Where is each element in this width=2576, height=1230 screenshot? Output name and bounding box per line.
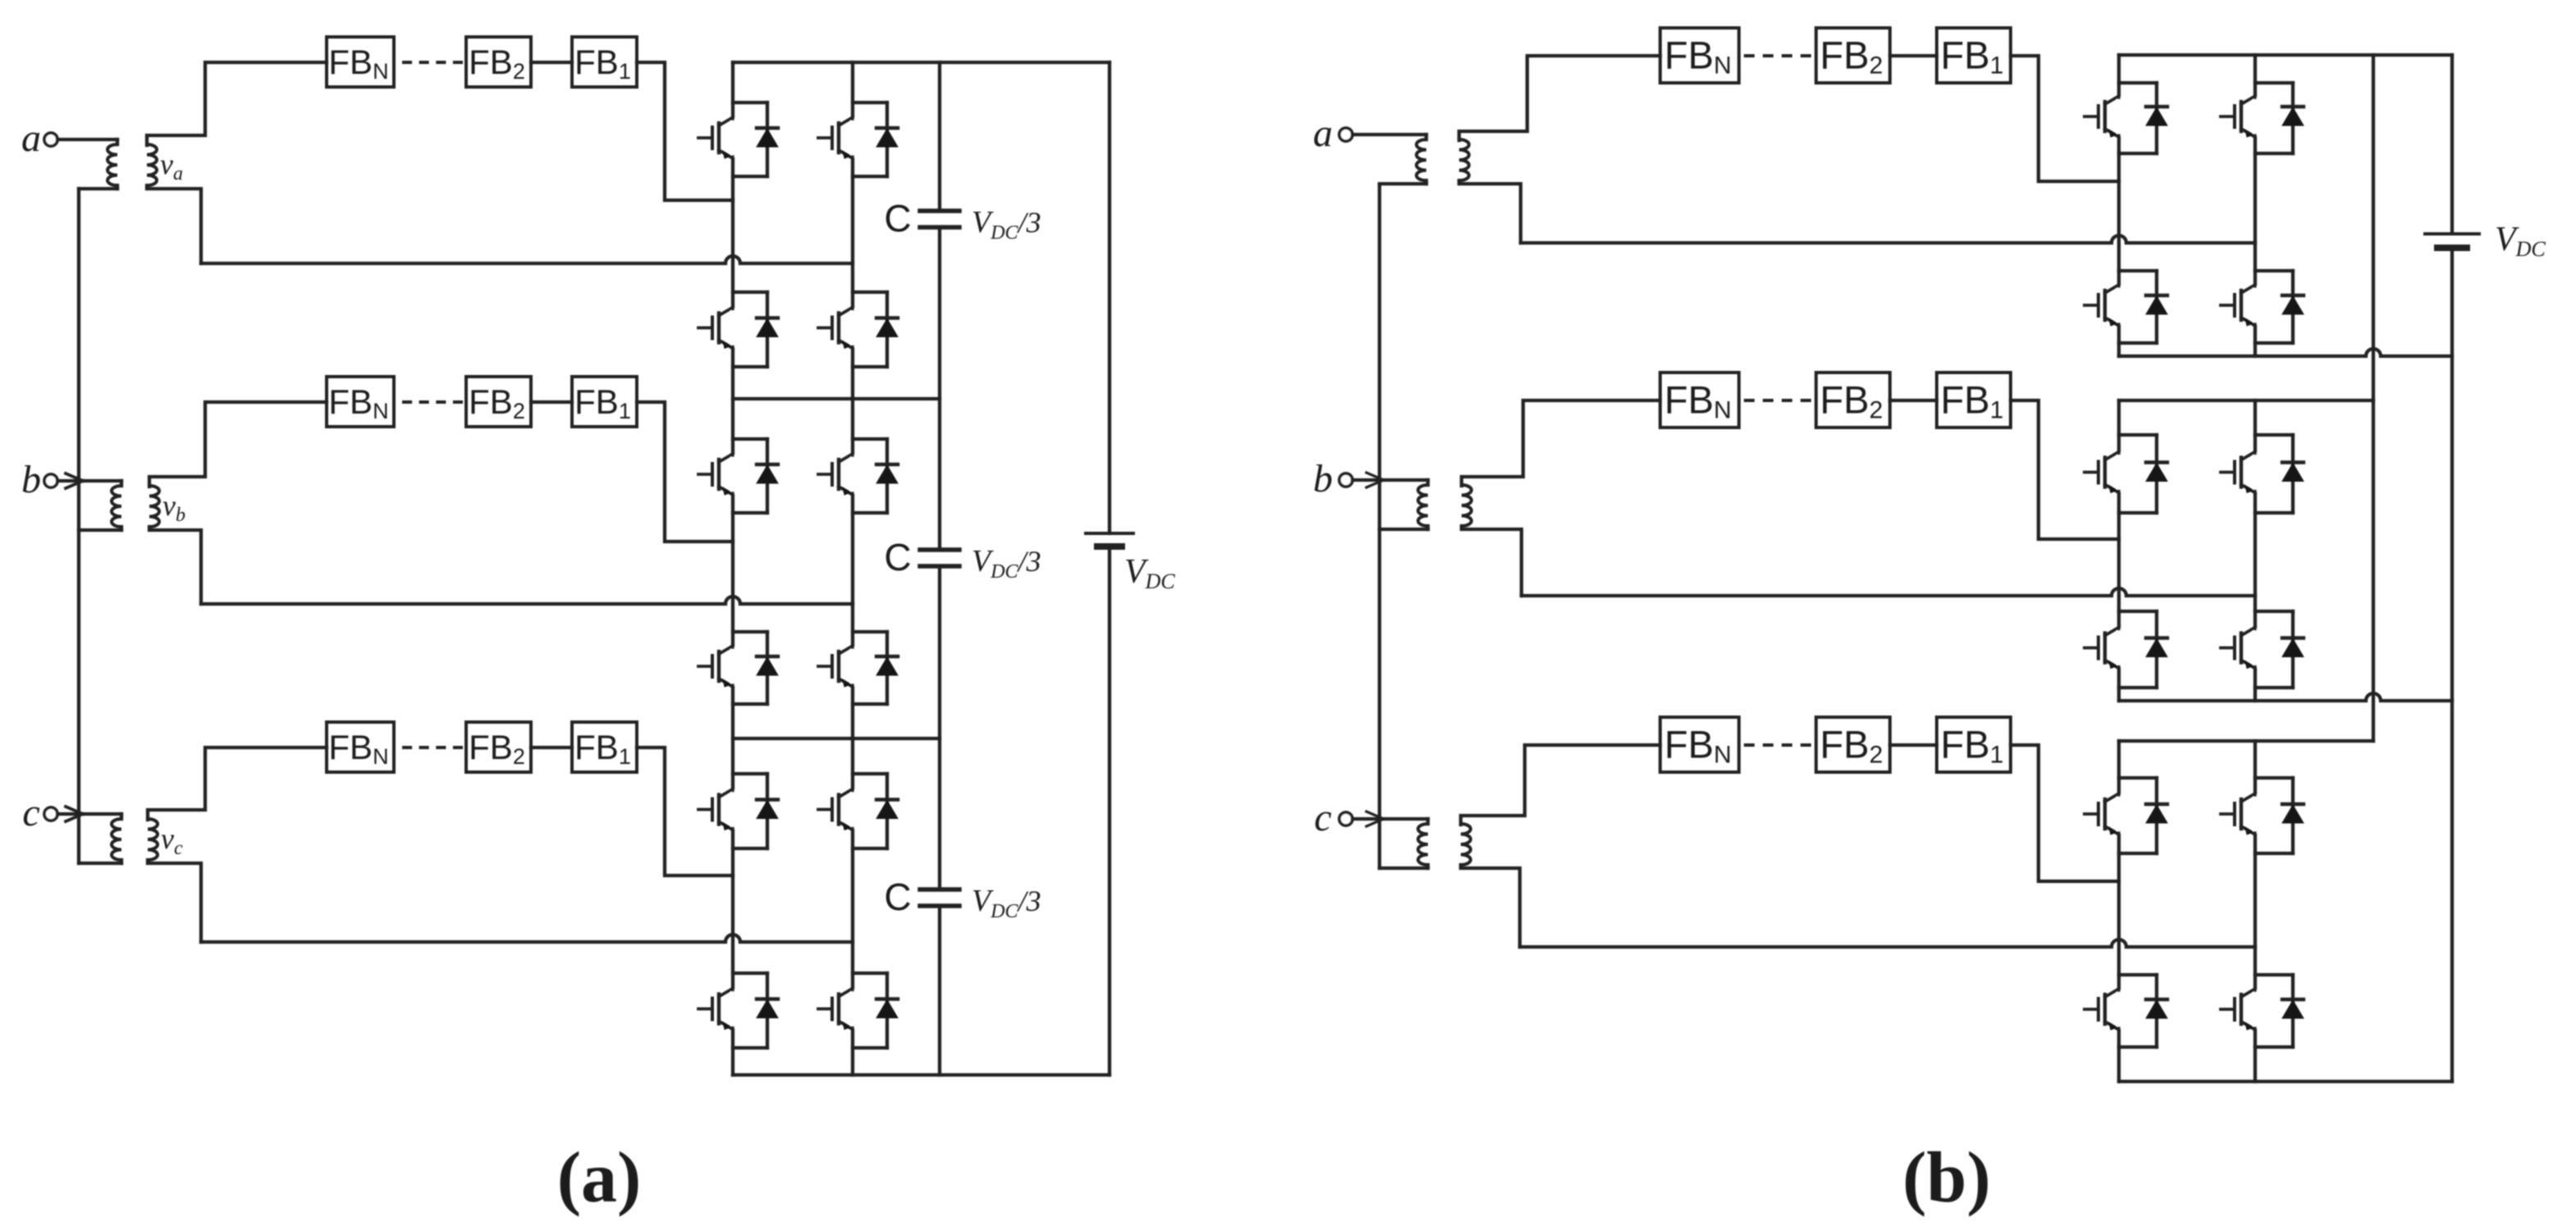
wire Tc secondary top to FB chain (diagram b) [1461, 745, 1660, 825]
svg-text:a: a [21, 117, 41, 160]
wire Ta primary bottom to neutral bus (diagram a) [79, 185, 117, 189]
label VDC (diagram b) [2495, 221, 2546, 261]
svg-text:c: c [1314, 796, 1331, 839]
dashed wire FB chain phase a (diagram b) [1746, 54, 1810, 57]
capacitor C1 (dc-link, diagram a) [920, 211, 959, 227]
wire FB1 phase a output to bridge left leg midpoint (diagram b) [2011, 56, 2119, 181]
value label VDC/3 of capacitor C3 (diagram a) [972, 884, 1041, 922]
wire dc-link node rail between phase b and c bridges (diagram a) [733, 737, 940, 740]
transistor Q5 upper-left IGBT phase b with antiparallel diode (diagram b) [2084, 435, 2167, 513]
wire return phase c crossing left leg (diagram a) [201, 935, 853, 942]
wire Ta secondary bottom return to bridge right leg midpoint (diagram b) [1459, 181, 1521, 243]
full-bridge cell FB1 phase c (diagram b) [1937, 717, 2011, 772]
svg-text:c: c [22, 791, 39, 834]
dashed wire FB chain phase a (diagram a) [404, 61, 461, 64]
svg-text:C: C [884, 876, 911, 918]
transistor Q3 lower-left IGBT phase a with antiparallel diode (diagram a) [698, 292, 778, 367]
full-bridge cell FB2 phase b (diagram a) [466, 377, 531, 427]
svg-text:C: C [884, 536, 911, 578]
wire positive dc rail (top, diagram a) [733, 61, 1110, 64]
full-bridge cell FB1 phase c (diagram a) [572, 722, 637, 772]
wire FB2 to FB1 phase b (diagram a) [531, 400, 572, 404]
label C of capacitor C3 (diagram a) [884, 876, 911, 918]
wire dc-link node rail between phase a and b bridges (diagram a) [733, 397, 940, 400]
wire Ta primary bottom to neutral bus (diagram b) [1380, 181, 1426, 184]
transistor Q4 lower-right IGBT phase a with antiparallel diode (diagram b) [2221, 271, 2304, 343]
wire Ta secondary top to FB chain (diagram b) [1459, 56, 1660, 140]
wire FB1 phase c output to bridge left leg midpoint (diagram b) [2011, 745, 2119, 881]
wire negative dc rail (bottom, diagram a) [733, 1073, 1110, 1077]
wire Tc secondary bottom return to bridge right leg midpoint (diagram a) [148, 860, 201, 942]
wire dc source bus (diagram b) [2450, 55, 2454, 1081]
capacitor C3 (dc-link, diagram a) [920, 889, 959, 906]
full-bridge cell FB2 phase b (diagram b) [1816, 373, 1890, 428]
node b (phase b input terminal, diagram a) [21, 458, 57, 501]
wire neutral bus connecting primary windings (diagram a) [77, 189, 80, 863]
transistor Q8 lower-right IGBT phase b with antiparallel diode (diagram b) [2221, 611, 2304, 688]
transistor Q6 upper-right IGBT phase b with antiparallel diode (diagram b) [2221, 435, 2304, 513]
wire terminal c to transformer Tc primary (diagram a) [57, 812, 121, 816]
transformer Tc primary winding (diagram a) [112, 814, 121, 860]
wire FB2 to FB1 phase a (diagram b) [1890, 54, 1937, 57]
svg-text:(a): (a) [557, 1138, 642, 1218]
crossing of phase b lead over neutral bus (diagram a) [66, 473, 83, 488]
transformer Ta secondary winding va (diagram a) [147, 144, 157, 185]
transistor Q2 upper-right IGBT phase a with antiparallel diode (diagram b) [2221, 83, 2304, 153]
transistor Q11 lower-left IGBT phase c with antiparallel diode (diagram a) [698, 973, 778, 1048]
full-bridge cell FB2 phase c (diagram a) [466, 722, 531, 772]
transistor Q9 upper-left IGBT phase c with antiparallel diode (diagram b) [2084, 778, 2167, 853]
full-bridge cell FB1 phase a (diagram b) [1937, 28, 2011, 83]
dashed wire FB chain phase b (diagram a) [404, 400, 461, 404]
label va (diagram a) [160, 148, 183, 185]
full-bridge cell FB2 phase a (diagram b) [1816, 28, 1890, 83]
transistor Q12 lower-right IGBT phase c with antiparallel diode (diagram a) [818, 973, 898, 1048]
crossing of phase b lead over neutral bus (diagram b) [1366, 473, 1384, 487]
wire H-bridge c positive rail (diagram b) [2119, 739, 2373, 743]
transformer Tb secondary winding (diagram b) [1462, 485, 1471, 526]
value label VDC/3 of capacitor C2 (diagram a) [972, 544, 1041, 583]
wire Tb secondary bottom return to bridge right leg midpoint (diagram a) [149, 527, 201, 604]
svg-text:C: C [884, 197, 911, 240]
label vc (diagram a) [161, 822, 183, 859]
battery VDC dc source (diagram b) [2425, 234, 2479, 248]
dashed wire FB chain phase c (diagram b) [1746, 743, 1810, 747]
full-bridge cell FB1 phase a (diagram a) [572, 37, 637, 87]
transistor Q10 upper-right IGBT phase c with antiparallel diode (diagram a) [818, 774, 898, 848]
full-bridge cell FB_N phase b (diagram b) [1660, 373, 1739, 428]
node c (phase c input terminal, diagram a) [22, 791, 57, 834]
transistor Q11 lower-left IGBT phase c with antiparallel diode (diagram b) [2084, 975, 2167, 1047]
wire Tb primary bottom to neutral bus (diagram b) [1380, 526, 1428, 529]
transistor Q2 upper-right IGBT phase a with antiparallel diode (diagram a) [818, 103, 898, 176]
wire FB1 phase b output to bridge left leg midpoint (diagram b) [2011, 400, 2119, 539]
dashed wire FB chain phase c (diagram a) [404, 746, 461, 749]
wire FB2 to FB1 phase c (diagram a) [531, 746, 572, 749]
transformer Tb primary winding (diagram b) [1418, 480, 1428, 526]
dashed wire FB chain phase b (diagram b) [1746, 399, 1810, 402]
wire return phase a crossing left leg (diagram b) [1521, 235, 2255, 243]
wire H-bridge b left leg rail (diagram b) [2117, 400, 2121, 701]
wire FB1 phase a output to bridge left leg midpoint (diagram a) [637, 62, 733, 200]
wire FB2 to FB1 phase c (diagram b) [1890, 743, 1937, 747]
wire FB1 phase c output to bridge left leg midpoint (diagram a) [637, 748, 733, 876]
transformer Tc secondary winding vc (diagram a) [148, 819, 158, 860]
full-bridge cell FB_N phase a (diagram b) [1660, 28, 1739, 83]
wire Tc secondary bottom return to bridge right leg midpoint (diagram b) [1461, 865, 1520, 947]
crossing of phase c lead over neutral bus (diagram b) [1366, 812, 1384, 826]
transistor Q6 upper-right IGBT phase b with antiparallel diode (diagram a) [818, 439, 898, 513]
wire terminal b to transformer primary (diagram b) [1352, 478, 1428, 482]
value label VDC/3 of capacitor C1 (diagram a) [972, 205, 1041, 244]
wire H-bridge b positive rail (diagram b) [2119, 399, 2373, 402]
label vb (diagram a) [162, 489, 185, 526]
full-bridge cell FB2 phase c (diagram b) [1816, 717, 1890, 772]
wire return phase a crossing left leg (diagram a) [201, 256, 853, 263]
transformer Tc primary winding (diagram b) [1418, 819, 1428, 865]
transformer Ta secondary winding (diagram b) [1459, 139, 1469, 181]
svg-text:b: b [1313, 457, 1333, 501]
transformer Tb primary winding (diagram a) [112, 481, 121, 527]
wire Ta secondary top to FB chain (diagram a) [147, 62, 327, 145]
transistor Q3 lower-left IGBT phase a with antiparallel diode (diagram b) [2084, 271, 2167, 343]
transistor Q1 upper-left IGBT phase a with antiparallel diode (diagram b) [2084, 83, 2167, 153]
transformer Tb secondary winding vb (diagram a) [149, 486, 159, 527]
transistor Q5 upper-left IGBT phase b with antiparallel diode (diagram a) [698, 439, 778, 513]
wire H-bridge a negative rail crossing plus-bus (diagram b) [2119, 349, 2452, 356]
wire plus distribution bus (diagram b) [2372, 55, 2375, 741]
wire capacitor bus (diagram a) [938, 62, 941, 1075]
full-bridge cell FB2 phase a (diagram a) [466, 37, 531, 87]
transistor Q4 lower-right IGBT phase a with antiparallel diode (diagram a) [818, 292, 898, 367]
wire FB2 to FB1 phase a (diagram a) [531, 61, 572, 64]
battery VDC dc source (diagram a) [1086, 533, 1133, 546]
wire FB2 to FB1 phase b (diagram b) [1890, 399, 1937, 402]
full-bridge cell FB_N phase c (diagram a) [327, 722, 394, 772]
capacitor C2 (dc-link, diagram a) [920, 550, 959, 566]
wire terminal c to transformer primary (diagram b) [1352, 817, 1428, 821]
wire return phase c crossing left leg (diagram b) [1520, 940, 2255, 947]
crossing of phase c lead over neutral bus (diagram a) [66, 807, 83, 821]
wire H-bridge b negative rail crossing plus-bus (diagram b) [2119, 693, 2452, 701]
svg-text:b: b [21, 458, 41, 501]
wire neutral bus connecting primary windings (diagram b) [1378, 185, 1381, 868]
wire Tc secondary top to FB chain (diagram a) [148, 748, 327, 820]
transistor Q1 upper-left IGBT phase a with antiparallel diode (diagram a) [698, 103, 778, 176]
transistor Q8 lower-right IGBT phase b with antiparallel diode (diagram a) [818, 632, 898, 704]
label C of capacitor C1 (diagram a) [884, 197, 911, 240]
wire Tb primary bottom to neutral bus (diagram a) [79, 527, 121, 530]
wire Tb secondary top to FB chain (diagram a) [149, 402, 327, 487]
node c (phase c input terminal, diagram b) [1314, 796, 1352, 839]
wire Tc primary bottom to neutral bus (diagram b) [1380, 865, 1428, 868]
wire H-bridge c left leg rail (diagram b) [2117, 741, 2121, 1081]
wire Ta secondary bottom return to bridge right leg midpoint (diagram a) [147, 185, 201, 263]
label VDC (diagram a) [1124, 553, 1175, 593]
node a (phase a input terminal, diagram b) [1313, 112, 1352, 155]
node a (phase a input terminal, diagram a) [21, 117, 57, 160]
transistor Q12 lower-right IGBT phase c with antiparallel diode (diagram b) [2221, 975, 2304, 1047]
wire terminal b to transformer Tb primary (diagram a) [57, 479, 121, 482]
wire H-bridge a positive rail (diagram b) [2119, 53, 2452, 57]
full-bridge cell FB_N phase c (diagram b) [1660, 717, 1739, 772]
wire bridge right leg rail (diagram a) [851, 62, 854, 1075]
full-bridge cell FB_N phase b (diagram a) [327, 377, 394, 427]
transistor Q9 upper-left IGBT phase c with antiparallel diode (diagram a) [698, 774, 778, 848]
wire H-bridge b right leg rail (diagram b) [2253, 400, 2257, 701]
caption (b) [1902, 1138, 1991, 1218]
transformer Ta primary winding (diagram b) [1416, 135, 1426, 181]
wire FB1 phase b output to bridge left leg midpoint (diagram a) [637, 402, 733, 542]
wire Tb secondary top to FB chain (diagram b) [1462, 400, 1660, 486]
wire return phase b crossing left leg (diagram a) [201, 597, 853, 604]
full-bridge cell FB1 phase b (diagram b) [1937, 373, 2011, 428]
wire dc source rail (diagram a) [1108, 62, 1111, 1075]
svg-text:a: a [1313, 112, 1333, 155]
transistor Q7 lower-left IGBT phase b with antiparallel diode (diagram a) [698, 632, 778, 704]
wire H-bridge c negative rail (diagram b) [2119, 1080, 2452, 1083]
label C of capacitor C2 (diagram a) [884, 536, 911, 578]
caption (a) [557, 1138, 642, 1218]
transformer Tc secondary winding (diagram b) [1461, 824, 1471, 865]
wire Tc primary bottom to neutral bus (diagram a) [79, 860, 121, 863]
full-bridge cell FB1 phase b (diagram a) [572, 377, 637, 427]
wire Tb secondary bottom return to bridge right leg midpoint (diagram b) [1462, 526, 1521, 596]
wire H-bridge a left leg rail (diagram b) [2117, 55, 2121, 356]
transistor Q7 lower-left IGBT phase b with antiparallel diode (diagram b) [2084, 611, 2167, 688]
svg-text:(b): (b) [1902, 1138, 1991, 1218]
transistor Q10 upper-right IGBT phase c with antiparallel diode (diagram b) [2221, 778, 2304, 853]
wire H-bridge a right leg rail (diagram b) [2253, 55, 2257, 356]
wire terminal a to transformer Ta primary (diagram a) [57, 138, 117, 141]
transformer Ta primary winding (diagram a) [108, 139, 117, 185]
wire H-bridge c right leg rail (diagram b) [2253, 741, 2257, 1081]
node b (phase b input terminal, diagram b) [1313, 457, 1352, 501]
wire bridge left leg rail (diagram a) [731, 62, 734, 1075]
wire terminal a to transformer primary (diagram b) [1352, 133, 1426, 136]
wire return phase b crossing left leg (diagram b) [1521, 588, 2255, 596]
full-bridge cell FB_N phase a (diagram a) [327, 37, 394, 87]
